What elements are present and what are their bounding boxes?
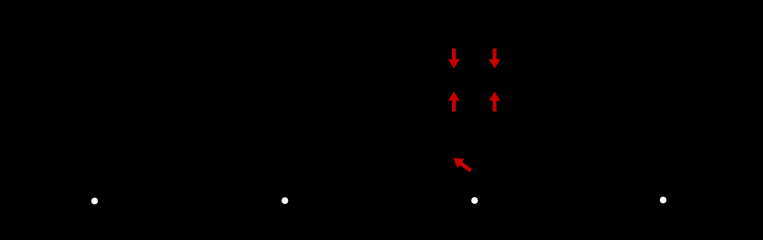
current arrow i2 (down, into top plate of C3b) xyxy=(489,49,501,69)
node N1 xyxy=(91,198,98,205)
wire shunt branch 2 xyxy=(284,18,286,188)
capacitor C4 xyxy=(653,73,672,86)
current arrow i4 (up, into bottom plate of C3b) xyxy=(489,92,501,112)
capacitor C3b xyxy=(485,73,504,86)
current arrow i3 (up, into bottom plate of C3a) xyxy=(448,92,460,112)
capacitor C3a xyxy=(444,73,463,86)
capacitor C2 xyxy=(275,73,294,86)
wire shunt branch 4 xyxy=(662,18,664,188)
wire top rail xyxy=(20,17,743,19)
wire shunt branch 1 xyxy=(94,18,96,188)
wire shunt branch 3 left xyxy=(453,18,455,130)
node N3 xyxy=(471,197,478,204)
node N4 xyxy=(660,197,667,204)
wire bottom rail xyxy=(20,187,743,189)
wire junction bar section 3 xyxy=(454,130,495,188)
annotation arrow (points to junction wire of section 3) xyxy=(454,158,472,172)
capacitor C1 xyxy=(85,73,104,86)
wire shunt branch 3 right xyxy=(494,18,496,130)
node N2 xyxy=(282,197,289,204)
current arrow i1 (down, into top plate of C3a) xyxy=(448,49,460,69)
